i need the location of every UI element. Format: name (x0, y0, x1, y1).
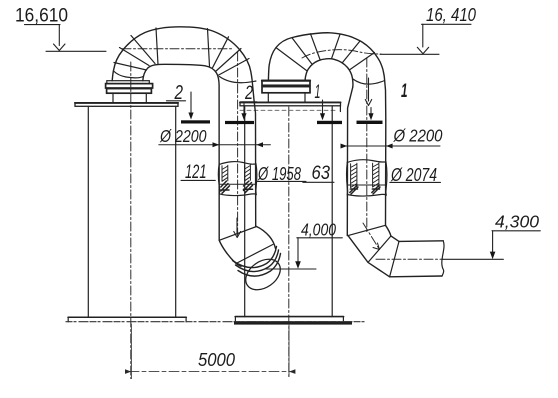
left vessel base plate (68, 316, 186, 318)
svg-text:2: 2 (244, 83, 253, 104)
section 2 cut bar b (225, 121, 254, 124)
section 2 arrow b (243, 104, 245, 116)
svg-text:Ø 2074: Ø 2074 (390, 164, 437, 185)
right joint mid line (347, 184, 386, 186)
svg-text:16, 410: 16, 410 (426, 4, 477, 25)
left leg weld seam (114, 71, 143, 78)
centerline right vessel (288, 107, 290, 377)
left elbow flange ring1 (233, 247, 277, 268)
section 2 arrow a (190, 92, 192, 115)
left flange lower stub (113, 93, 146, 102)
left elbow seam2 (236, 245, 273, 264)
svg-text:63: 63 (312, 163, 331, 184)
right gooseneck miter seams (277, 34, 375, 71)
section 1 cut bar b (357, 121, 383, 124)
right joint hatch right (373, 163, 379, 187)
right elbow seam2 (368, 236, 391, 262)
elev 4300 level line (443, 258, 503, 260)
elev 16410 underline (422, 23, 472, 25)
right leg weld seam (353, 79, 385, 84)
left joint mid line (219, 183, 256, 185)
svg-text:4,000: 4,000 (301, 220, 336, 240)
dia2200 right dim line (341, 145, 440, 147)
centerline right duct leg (366, 58, 368, 232)
left joint lower dark marks (221, 181, 230, 193)
svg-text:1: 1 (401, 81, 408, 102)
outlet pipe top edge (399, 240, 443, 243)
svg-text:Ø 1958: Ø 1958 (257, 163, 301, 184)
centerline right duct bend (302, 50, 381, 58)
left gooseneck miter seams right bend (213, 37, 250, 76)
elev 16610 level line (46, 50, 106, 52)
right inlet flange stack (262, 81, 310, 86)
svg-text:121: 121 (185, 162, 207, 183)
dia2200 left dim line (159, 144, 271, 146)
section 2 underline b (241, 101, 257, 103)
elev 4000 leader (297, 238, 299, 263)
left elbow inner contour (219, 240, 241, 266)
left elbow outer contour (257, 227, 276, 249)
svg-text:16,610: 16,610 (15, 6, 68, 27)
centerline left vessel (130, 62, 132, 379)
centerline left duct right leg (237, 52, 239, 236)
left gooseneck outer contour (112, 27, 256, 227)
outlet pipe bottom edge (390, 275, 442, 278)
svg-text:2: 2 (174, 82, 183, 104)
right vessel top plate (240, 102, 341, 106)
left gooseneck miter seams left bend (114, 36, 155, 71)
dim63 underline (303, 181, 334, 183)
right elbow centerline arrowhead (373, 243, 380, 250)
left gooseneck inner contour (143, 64, 219, 240)
dim8000 dim line (129, 371, 292, 373)
right elbow seam1 (348, 225, 386, 235)
centerline right elbow diagonal (363, 223, 380, 250)
right gooseneck outer contour (268, 33, 385, 120)
section 1 cut bar a (317, 121, 342, 124)
left inlet flange stack (107, 81, 150, 84)
right leg flow arrow (365, 78, 371, 106)
right elbow outer left contour (348, 236, 390, 277)
left joint bottom wavy (219, 194, 256, 196)
left vessel wall left (87, 107, 89, 318)
svg-text:5000: 5000 (198, 350, 235, 370)
left joint hatch right (245, 165, 251, 181)
elev 16410 level line (380, 53, 439, 55)
right downpipe right edge (385, 120, 387, 225)
right elbow outer right contour (386, 225, 400, 241)
svg-text:Ø 2200: Ø 2200 (393, 126, 443, 146)
elev 16410 leader (422, 24, 424, 47)
left joint hatch left (222, 165, 228, 181)
elev 16610 underline (25, 24, 61, 26)
dia2074 underline (390, 181, 441, 183)
centerline horizontal outlet pipe (376, 258, 443, 260)
svg-text:1: 1 (315, 82, 321, 103)
left elbow flange ring2 (238, 254, 281, 277)
right joint right bulge (386, 162, 387, 196)
dim121 underline (181, 179, 215, 181)
svg-text:Ø 2200: Ø 2200 (159, 126, 207, 146)
section 1 arrow b (370, 108, 372, 116)
right flange lower stub (268, 93, 305, 102)
left joint right bulge (255, 164, 258, 195)
left joint top wavy (219, 162, 256, 165)
ground line (66, 321, 364, 323)
right joint hatch left (351, 163, 357, 187)
right leg left edge (347, 87, 353, 236)
elev 4000 underline (297, 237, 343, 239)
right joint bottom wavy (347, 194, 386, 196)
right vessel wall right (331, 106, 333, 317)
right joint top wavy (347, 160, 386, 163)
dia1958 underline (257, 180, 306, 182)
centerline left duct horizontal (122, 48, 233, 50)
elev 16410 arrow (417, 47, 428, 54)
left vessel top plate (75, 103, 178, 107)
section 2 cut bar a (181, 120, 210, 123)
elev 4300 underline (492, 230, 540, 232)
svg-text:4,300: 4,300 (495, 212, 539, 232)
right vessel wall left (244, 106, 246, 317)
left elbow flow arrow (234, 218, 241, 238)
elev 16610 arrow (54, 44, 66, 51)
left right-leg weld seam (219, 77, 256, 83)
right vessel base plate (235, 316, 343, 318)
right gooseneck inner contour (305, 59, 353, 87)
elev 16610 leader (58, 25, 60, 46)
left joint left bulge (218, 164, 219, 195)
left gooseneck miter seams top (156, 28, 210, 67)
dim8000 ext lines (131, 324, 289, 379)
right joint left bulge (347, 162, 348, 195)
outlet pipe break line (442, 241, 444, 276)
section 1 arrow a (322, 100, 324, 116)
section 2 underline a (167, 100, 186, 102)
elev 4300 leader (492, 231, 494, 253)
right vessel base dark band (234, 321, 352, 324)
right joint lower dark marks (350, 185, 358, 194)
left elbow seam1 (219, 227, 256, 241)
left elbow end face (240, 253, 286, 296)
left vessel wall right (175, 107, 177, 318)
right vessel hidden seam line (240, 109, 337, 111)
elev 4000 level line (266, 268, 316, 270)
right elbow seam3 (390, 241, 399, 276)
